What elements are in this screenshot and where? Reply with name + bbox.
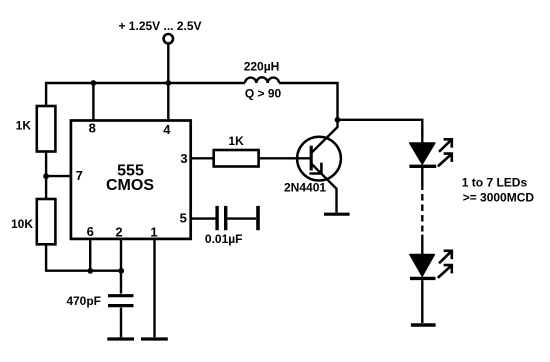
LED D2 emission arrows: [438, 251, 452, 278]
svg-text:Q > 90: Q > 90: [245, 87, 282, 101]
svg-text:8: 8: [89, 121, 96, 136]
wire D1 cathode: [421, 168, 423, 190]
svg-text:470pF: 470pF: [66, 294, 101, 308]
svg-text:2N4401: 2N4401: [284, 181, 326, 195]
wire D2 cathode: [421, 280, 423, 323]
resistor R1 1K: [37, 106, 56, 152]
wire pin 6: [89, 239, 91, 271]
wire pin 1 to ground: [153, 239, 155, 337]
junction rail/pin8: [91, 80, 97, 86]
LED D1: [409, 143, 436, 166]
capacitor C1 470pF: [108, 296, 134, 306]
wire node 7 to R2: [45, 176, 47, 199]
terminal bar (LED string bottom): [411, 323, 436, 327]
ground (C1): [107, 337, 134, 340]
resistor R3 1K: [214, 150, 259, 167]
wire C2 to termination: [228, 217, 257, 219]
junction supply/rail: [165, 80, 171, 86]
supply terminal: [164, 34, 173, 43]
LED D2: [410, 255, 436, 279]
resistor R2 10K: [37, 199, 56, 244]
wire R2 to bottom node: [46, 244, 121, 270]
dashed wire (1 to 7 LEDs): [421, 194, 423, 232]
svg-text:1K: 1K: [16, 118, 32, 132]
ground (pin 1): [141, 337, 168, 340]
svg-text:6: 6: [87, 224, 94, 239]
LED D1 emission arrows: [438, 139, 452, 166]
svg-text:10K: 10K: [11, 217, 33, 231]
ground bar (C2): [256, 206, 260, 230]
junction node 7: [43, 173, 49, 179]
wire collector node to LED D1: [338, 120, 423, 143]
wire pin 5 to C2: [191, 217, 216, 219]
svg-text:>= 3000MCD: >= 3000MCD: [463, 191, 535, 205]
wire C1 to ground: [120, 308, 122, 338]
svg-text:3: 3: [180, 151, 187, 166]
svg-text:7: 7: [76, 168, 83, 183]
wire R3 to base: [259, 157, 311, 159]
svg-text:+ 1.25V ... 2.5V: + 1.25V ... 2.5V: [118, 19, 201, 33]
IC U1 555 CMOS: [71, 121, 191, 239]
wire R1 to node 7: [45, 152, 47, 177]
wire pin 2 to C1: [120, 239, 122, 294]
capacitor C2 0.01µF: [217, 206, 226, 230]
wire supply to pin 4: [167, 44, 169, 121]
svg-text:220µH: 220µH: [244, 60, 280, 74]
svg-text:0.01µF: 0.01µF: [205, 232, 243, 246]
transistor Q1: [297, 120, 341, 213]
svg-text:2: 2: [115, 225, 122, 240]
wire pin 3 to R3: [191, 157, 214, 159]
ground (emitter): [324, 213, 350, 216]
junction pin 2 node: [118, 268, 124, 274]
svg-text:CMOS: CMOS: [106, 177, 154, 194]
svg-text:5: 5: [180, 211, 187, 226]
wire node 7 to pin 7: [46, 175, 71, 177]
wire power rail left: [46, 83, 245, 106]
inductor L1: [245, 77, 279, 83]
wire pin 8: [92, 83, 94, 121]
svg-text:1 to 7 LEDs: 1 to 7 LEDs: [462, 176, 528, 190]
svg-text:1: 1: [150, 225, 157, 240]
junction pin 6 node: [87, 268, 93, 274]
wire to D2: [421, 235, 423, 254]
wire rail right of inductor to collector node: [279, 83, 338, 120]
svg-text:4: 4: [163, 122, 171, 137]
junction collector node: [335, 117, 341, 123]
svg-text:1K: 1K: [228, 134, 244, 148]
